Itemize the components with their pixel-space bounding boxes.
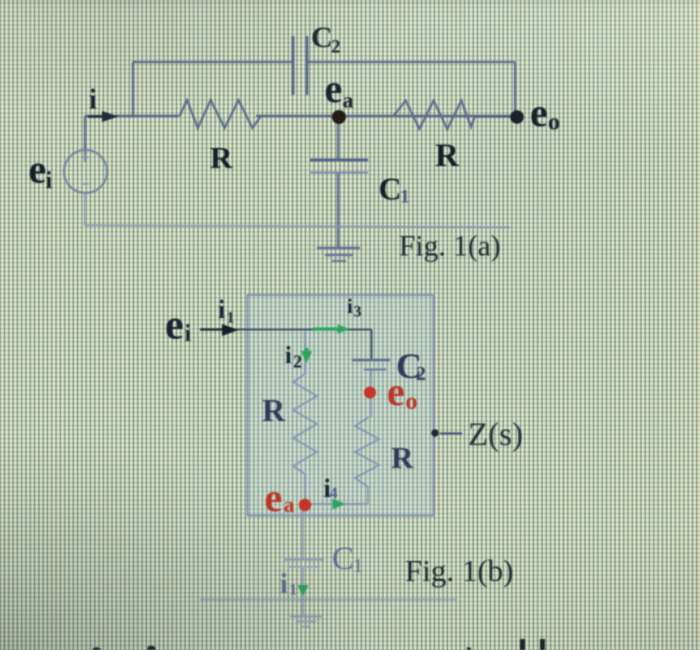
svg-text:R: R <box>391 440 414 475</box>
svg-text:1: 1 <box>227 310 235 327</box>
svg-text:i: i <box>285 343 292 369</box>
svg-text:i: i <box>347 294 353 318</box>
svg-text:R: R <box>210 140 233 175</box>
svg-text:a: a <box>284 492 295 517</box>
svg-text:3: 3 <box>354 304 362 321</box>
svg-text:1: 1 <box>289 582 297 599</box>
svg-text:4: 4 <box>330 485 338 502</box>
svg-text:i: i <box>46 168 53 194</box>
svg-text:i: i <box>218 295 225 324</box>
svg-text:Fig. 1(b): Fig. 1(b) <box>405 553 514 588</box>
svg-text:i: i <box>89 85 97 116</box>
svg-text:R: R <box>435 138 460 174</box>
svg-text:e: e <box>325 66 343 111</box>
svg-text:a: a <box>343 88 354 113</box>
svg-text:2: 2 <box>331 37 341 58</box>
svg-text:2: 2 <box>416 363 426 385</box>
svg-text:e: e <box>29 147 47 192</box>
svg-text:e: e <box>387 369 405 414</box>
svg-text:Z(s): Z(s) <box>468 417 523 453</box>
svg-text:i: i <box>280 569 288 600</box>
svg-text:1: 1 <box>353 555 363 577</box>
svg-text:1: 1 <box>400 187 410 208</box>
svg-text:e: e <box>530 90 548 135</box>
svg-text:Fig. 1(a): Fig. 1(a) <box>399 231 501 263</box>
svg-text:C: C <box>332 541 354 577</box>
svg-text:e: e <box>165 303 184 349</box>
svg-text:e: e <box>265 475 283 520</box>
svg-text:R: R <box>262 392 286 428</box>
svg-text:i: i <box>185 321 192 347</box>
svg-text:C: C <box>379 171 402 207</box>
svg-text:o: o <box>406 389 418 415</box>
svg-text:C: C <box>311 21 333 54</box>
svg-text:o: o <box>548 110 560 136</box>
svg-text:2: 2 <box>293 352 302 372</box>
